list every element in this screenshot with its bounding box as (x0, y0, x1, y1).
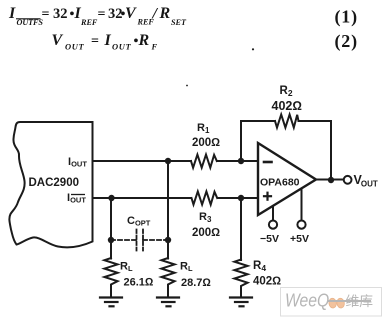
svg-text:F: F (151, 42, 158, 52)
svg-text:32: 32 (53, 6, 68, 22)
svg-text:V: V (52, 32, 64, 49)
svg-text:OPA680: OPA680 (260, 177, 300, 189)
svg-text:R: R (138, 32, 150, 49)
svg-text:200Ω: 200Ω (192, 227, 220, 239)
svg-text:200Ω: 200Ω (192, 137, 220, 149)
svg-text:I: I (104, 32, 112, 49)
svg-text:(2): (2) (335, 31, 358, 52)
svg-text:26.1Ω: 26.1Ω (124, 277, 154, 289)
svg-text:OUT: OUT (65, 42, 84, 52)
svg-text:=: = (98, 7, 106, 22)
svg-text:I: I (8, 5, 16, 22)
svg-text:OUT: OUT (112, 42, 131, 52)
svg-text:(1): (1) (335, 6, 358, 27)
svg-text:=: = (42, 7, 50, 22)
svg-text:=: = (91, 34, 99, 49)
svg-text:SET: SET (171, 18, 187, 27)
svg-text:DAC2900: DAC2900 (29, 177, 80, 189)
svg-text:REF: REF (80, 18, 98, 27)
svg-text:28.7Ω: 28.7Ω (181, 277, 211, 289)
svg-text:402Ω: 402Ω (253, 276, 281, 288)
svg-text:WeeQ: WeeQ (285, 289, 329, 311)
svg-text:R: R (159, 5, 171, 22)
svg-text:V: V (125, 5, 137, 22)
svg-text:+5V: +5V (290, 233, 309, 245)
svg-text:−5V: −5V (260, 233, 279, 245)
svg-text:402Ω: 402Ω (272, 99, 302, 113)
